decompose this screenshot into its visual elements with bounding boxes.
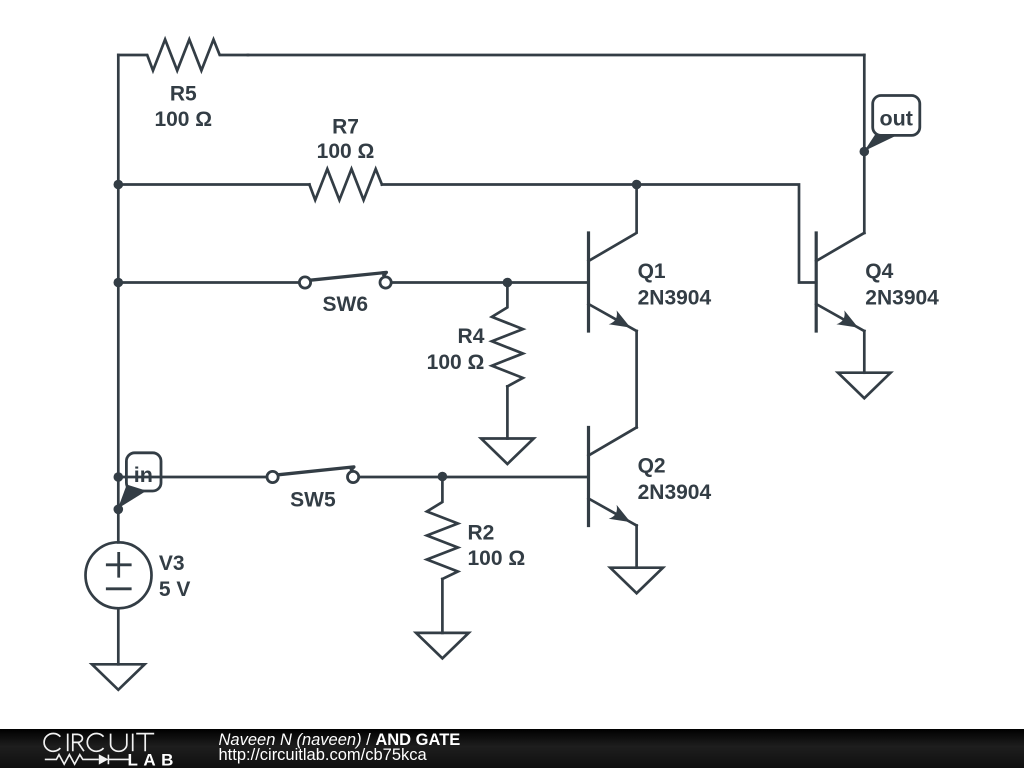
transistor Q4 [816, 233, 939, 331]
svg-text:2N3904: 2N3904 [865, 287, 939, 310]
svg-text:Q1: Q1 [638, 260, 666, 283]
node: junction rail-SW6 wire [114, 278, 124, 288]
svg-text:R7: R7 [332, 115, 359, 138]
CircuitLab logo [44, 734, 179, 768]
wire: out vertical drop to Q4 collector [863, 55, 866, 233]
wire: rail to R7 [118, 183, 309, 186]
svg-text:LAB: LAB [128, 750, 179, 768]
ground (R2) [416, 633, 469, 659]
node: V3 positive terminal [114, 505, 124, 515]
wire: R7 to Q4 base [382, 185, 816, 283]
svg-text:100 Ω: 100 Ω [317, 140, 375, 163]
wire: R4 to ground [506, 386, 509, 438]
ground (V3) [92, 664, 145, 690]
resistor R5 [118, 40, 248, 132]
C [87, 734, 103, 752]
svg-text:in: in [134, 463, 153, 487]
T [136, 734, 154, 752]
footer bar [0, 729, 1024, 768]
wire: Q2 emitter to ground [635, 526, 638, 568]
switch SW5 [267, 467, 359, 511]
svg-text:R4: R4 [458, 325, 485, 348]
svg-text:SW6: SW6 [323, 293, 369, 316]
resistor R2 [427, 477, 525, 579]
U [111, 734, 127, 752]
resistor R7 [309, 115, 382, 200]
svg-text:R5: R5 [170, 82, 197, 105]
svg-text:2N3904: 2N3904 [638, 287, 712, 310]
wire: Q1 emitter to Q2 collector [635, 331, 638, 427]
svg-text:R2: R2 [468, 522, 495, 545]
node: out junction [860, 147, 870, 157]
svg-text:V3: V3 [159, 552, 185, 575]
ground (Q2) [610, 568, 663, 594]
svg-text:SW5: SW5 [290, 488, 336, 511]
wire: Q4 emitter to ground [863, 331, 866, 373]
wire: rail to SW5 [118, 476, 266, 479]
svg-text:http://circuitlab.com/cb75kca: http://circuitlab.com/cb75kca [219, 746, 428, 764]
flag out [864, 96, 920, 152]
wire: R2 to ground [441, 579, 444, 633]
resistor R4 [427, 283, 523, 387]
svg-text:Q2: Q2 [638, 455, 666, 478]
voltage source V3 [86, 542, 191, 608]
svg-text:100 Ω: 100 Ω [154, 108, 212, 131]
logo squiggle resistor + diode [45, 755, 129, 765]
R [73, 734, 84, 751]
node: junction rail-SW5 wire [114, 472, 124, 482]
svg-text:100 Ω: 100 Ω [468, 547, 526, 570]
wire: SW5 to Q2 base [360, 476, 589, 479]
svg-text:5 V: 5 V [159, 578, 191, 601]
wire: V+ top net to out [248, 54, 864, 57]
wire: V3 to ground [117, 608, 120, 664]
node: junction R2 top [438, 472, 448, 482]
ground (R4) [481, 439, 534, 465]
svg-text:100 Ω: 100 Ω [427, 351, 485, 374]
I [132, 734, 134, 752]
I [67, 734, 69, 752]
transistor Q1 [589, 185, 712, 332]
switch SW6 [299, 272, 391, 316]
node: junction R4 top [503, 278, 513, 288]
wire: rail to SW6 [118, 281, 298, 284]
C [44, 734, 60, 752]
transistor Q2 [589, 427, 712, 525]
flag in [118, 453, 161, 509]
node: junction rail-R7 [114, 180, 124, 190]
wire: left vertical rail [117, 55, 120, 542]
wire: SW6 to Q1 base [392, 281, 589, 284]
ground (Q4) [838, 373, 891, 399]
svg-text:2N3904: 2N3904 [638, 481, 712, 504]
node: junction Q1 collector-R7 net [632, 180, 642, 190]
svg-text:Q4: Q4 [865, 260, 893, 283]
svg-text:out: out [879, 106, 912, 130]
